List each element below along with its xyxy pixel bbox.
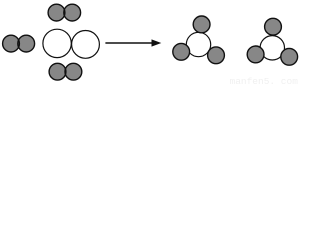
product molecule 2 — [247, 18, 297, 65]
gray diatomic molecule (bottom) — [49, 63, 82, 80]
gray diatomic molecule (left) — [3, 35, 35, 52]
product molecule 1 — [173, 16, 225, 64]
reaction arrow — [105, 39, 161, 46]
white diatomic molecule (center) — [43, 29, 99, 58]
svg-text:manfen5. com: manfen5. com — [230, 76, 299, 85]
gray diatomic molecule (top) — [48, 4, 80, 21]
